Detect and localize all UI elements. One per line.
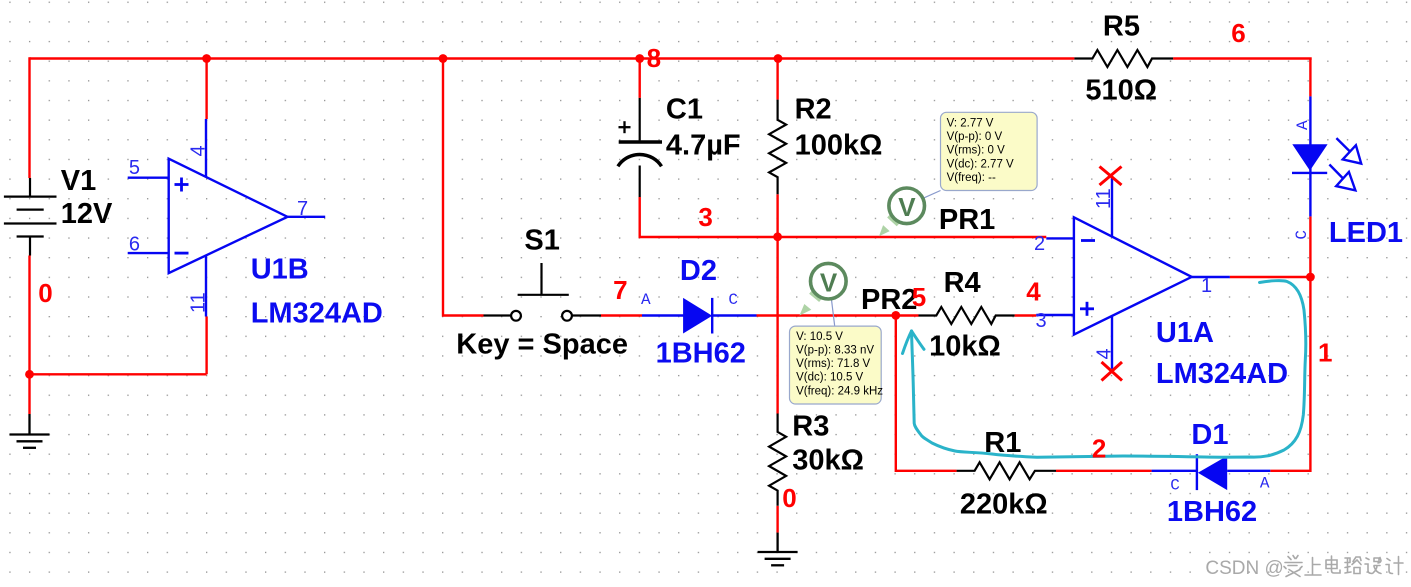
svg-text:4: 4 bbox=[188, 145, 210, 156]
svg-text:0: 0 bbox=[38, 278, 52, 308]
wire C1 top net 8 bbox=[639, 59, 641, 98]
svg-text:4.7µF: 4.7µF bbox=[666, 130, 741, 162]
wire D1 to right vertical net 1 bbox=[1270, 277, 1310, 471]
resistor R2 (vertical) bbox=[769, 100, 786, 195]
svg-text:U1A: U1A bbox=[1156, 317, 1214, 349]
svg-text:PR2: PR2 bbox=[861, 284, 917, 316]
svg-text:R1: R1 bbox=[984, 427, 1021, 459]
LED light arrow 1 bbox=[1336, 138, 1361, 164]
resistor R4 (horizontal) bbox=[919, 307, 1015, 324]
svg-text:6: 6 bbox=[129, 234, 140, 256]
wire S1 to D2 net 7 bbox=[601, 314, 642, 316]
svg-text:1: 1 bbox=[1201, 275, 1212, 297]
resistor R5 (horizontal top) bbox=[1074, 50, 1173, 67]
tooltip PR1 bbox=[941, 112, 1038, 190]
svg-text:100kΩ: 100kΩ bbox=[795, 130, 883, 162]
svg-text:11: 11 bbox=[1093, 188, 1115, 209]
svg-text:3: 3 bbox=[1036, 310, 1047, 332]
svg-text:V: V bbox=[898, 192, 916, 222]
svg-text:C: C bbox=[1170, 477, 1180, 495]
svg-text:7: 7 bbox=[297, 198, 308, 220]
svg-text:S1: S1 bbox=[524, 224, 559, 256]
LED light arrow 2 bbox=[1329, 165, 1355, 191]
svg-text:V(rms): 0 V: V(rms): 0 V bbox=[947, 145, 1005, 157]
node U1B pin4 junction bbox=[202, 54, 211, 63]
node R2 top junction bbox=[774, 54, 783, 63]
wire R2 top bbox=[776, 59, 778, 100]
svg-text:LM324AD: LM324AD bbox=[1156, 358, 1288, 390]
svg-text:5: 5 bbox=[129, 157, 140, 179]
svg-text:R2: R2 bbox=[795, 94, 832, 126]
wire left vertical above battery bbox=[28, 57, 30, 178]
svg-text:LM324AD: LM324AD bbox=[251, 298, 383, 330]
diode D1 bbox=[1152, 454, 1271, 490]
wire top rail left of R5 bbox=[30, 57, 1075, 59]
svg-text:220kΩ: 220kΩ bbox=[960, 489, 1048, 521]
svg-text:A: A bbox=[1294, 120, 1312, 130]
svg-text:R4: R4 bbox=[944, 267, 981, 299]
svg-text:V: V bbox=[820, 267, 838, 297]
svg-text:C: C bbox=[728, 291, 738, 309]
wire LED cathode to junction bbox=[1309, 216, 1311, 277]
wire U1B pin11 vertical red bbox=[205, 317, 207, 375]
wire R1 to D1 net 2 bbox=[1056, 470, 1152, 472]
svg-text:D1: D1 bbox=[1191, 419, 1228, 451]
svg-text:V: 2.77 V: V: 2.77 V bbox=[947, 117, 994, 129]
diode D2 bbox=[642, 298, 757, 334]
node 5 junction PR2 bbox=[891, 311, 900, 320]
svg-text:V(freq): --: V(freq): -- bbox=[947, 172, 996, 184]
battery V1 bbox=[4, 178, 57, 256]
wire U1B pin4 vertical red bbox=[205, 59, 207, 120]
svg-text:R3: R3 bbox=[792, 410, 829, 442]
svg-text:2: 2 bbox=[1034, 233, 1045, 255]
LED1 bbox=[1292, 96, 1328, 216]
probe PR2 bbox=[800, 263, 847, 326]
svg-text:C: C bbox=[1293, 230, 1311, 240]
hanzi dian bbox=[1326, 556, 1340, 573]
hanzi ji bbox=[1386, 557, 1403, 575]
node S1 branch junction bbox=[439, 54, 448, 63]
svg-text:V(freq): 24.9 kHz: V(freq): 24.9 kHz bbox=[796, 385, 883, 397]
svg-text:V(dc): 10.5 V: V(dc): 10.5 V bbox=[796, 372, 863, 384]
svg-text:0: 0 bbox=[782, 483, 796, 513]
hanzi ai bbox=[1284, 556, 1302, 577]
cyan annotation loop bbox=[903, 281, 1306, 458]
node 1 junction output bbox=[1306, 273, 1315, 282]
svg-text:4: 4 bbox=[1094, 348, 1116, 359]
switch S1 bbox=[484, 263, 602, 321]
svg-text:3: 3 bbox=[698, 202, 712, 232]
svg-text:12V: 12V bbox=[61, 198, 113, 230]
wire net 3 horizontal to U1A pin2 bbox=[778, 236, 1047, 238]
svg-text:11: 11 bbox=[187, 292, 209, 313]
svg-text:1: 1 bbox=[1318, 338, 1332, 368]
svg-text:Key = Space: Key = Space bbox=[456, 328, 628, 360]
wire top rail right of R5 bbox=[1173, 57, 1312, 59]
svg-text:V(rms): 71.8 V: V(rms): 71.8 V bbox=[796, 358, 870, 370]
resistor R3 (vertical) bbox=[769, 414, 786, 506]
svg-text:PR1: PR1 bbox=[939, 204, 995, 236]
svg-text:V1: V1 bbox=[61, 165, 96, 197]
tooltip PR2 bbox=[790, 326, 884, 404]
wire LED anode top bbox=[1309, 59, 1311, 97]
cyan arrowhead bbox=[903, 331, 912, 354]
svg-text:CSDN @: CSDN @ bbox=[1205, 558, 1283, 579]
svg-text:C1: C1 bbox=[666, 94, 703, 126]
wire S1 branch vertical bbox=[443, 59, 484, 316]
hanzi shang bbox=[1305, 558, 1321, 576]
resistor R1 (horizontal) bbox=[957, 462, 1056, 479]
svg-text:U1B: U1B bbox=[251, 254, 309, 286]
probe PR1 bbox=[879, 188, 941, 236]
svg-text:V(dc): 2.77 V: V(dc): 2.77 V bbox=[947, 158, 1014, 170]
red X pin 4 U1A bbox=[1102, 362, 1123, 381]
svg-text:4: 4 bbox=[1026, 277, 1041, 307]
svg-text:10kΩ: 10kΩ bbox=[929, 331, 1001, 363]
svg-text:510Ω: 510Ω bbox=[1085, 75, 1157, 107]
red X pin 11 U1A bbox=[1100, 167, 1122, 186]
svg-text:LED1: LED1 bbox=[1329, 217, 1403, 249]
op-amp U1A bbox=[1036, 176, 1230, 369]
hanzi she bbox=[1365, 558, 1381, 574]
svg-text:5: 5 bbox=[912, 282, 926, 312]
wire C1 bottom to net 3 bbox=[640, 197, 776, 237]
wire R4 right to pin3 bbox=[1015, 314, 1037, 316]
wire PR2 down to net 2 bbox=[896, 316, 957, 471]
svg-text:A: A bbox=[641, 291, 651, 309]
svg-text:V: 10.5 V: V: 10.5 V bbox=[796, 331, 843, 343]
capacitor C1 bbox=[618, 98, 662, 197]
svg-text:D2: D2 bbox=[680, 255, 717, 287]
hanzi lu bbox=[1345, 557, 1361, 574]
node 3 junction R2 bottom bbox=[773, 232, 782, 241]
svg-text:R5: R5 bbox=[1103, 11, 1140, 43]
wire R3 bottom bbox=[776, 506, 778, 533]
wire left vertical below battery bbox=[28, 256, 30, 415]
svg-text:1BH62: 1BH62 bbox=[1167, 496, 1257, 528]
svg-text:2: 2 bbox=[1092, 434, 1106, 464]
svg-text:7: 7 bbox=[613, 275, 627, 305]
ground right (below R3) bbox=[758, 533, 798, 566]
op-amp U1B bbox=[128, 119, 326, 317]
svg-text:30kΩ: 30kΩ bbox=[792, 445, 864, 477]
svg-text:V(p-p): 0 V: V(p-p): 0 V bbox=[947, 131, 1003, 143]
wire U1A pin1 output red bbox=[1230, 276, 1311, 278]
svg-text:V(p-p): 8.33 nV: V(p-p): 8.33 nV bbox=[796, 345, 874, 357]
svg-text:8: 8 bbox=[647, 43, 661, 73]
wire R2 bottom to R3 vertical bbox=[776, 194, 778, 413]
wire ground horizontal net 0 bbox=[30, 373, 207, 375]
svg-text:6: 6 bbox=[1231, 18, 1245, 48]
svg-text:A: A bbox=[1260, 475, 1270, 493]
wire D2 to R4 net 5 bbox=[757, 314, 919, 316]
node 0 junction ground bbox=[25, 370, 34, 379]
node 8 junction bbox=[635, 54, 644, 63]
ground left bbox=[10, 414, 50, 448]
svg-text:1BH62: 1BH62 bbox=[656, 338, 746, 370]
